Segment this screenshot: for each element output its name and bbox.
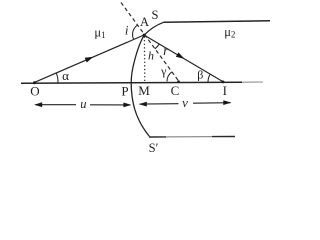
svg-text:α: α xyxy=(62,68,69,83)
angle arc gamma at C xyxy=(167,72,172,82)
svg-text:β: β xyxy=(197,67,203,81)
u distance double arrow xyxy=(36,104,77,106)
svg-text:A: A xyxy=(140,15,149,29)
angle arc r at A xyxy=(155,44,160,49)
svg-text:S′: S′ xyxy=(149,141,159,155)
refracting spherical surface S S' (arc through P) xyxy=(131,22,163,136)
junction dot at I xyxy=(222,81,225,84)
svg-text:M: M xyxy=(138,83,150,98)
svg-text:u: u xyxy=(80,97,86,111)
lower boundary line middle (faded) xyxy=(166,136,212,138)
svg-text:i: i xyxy=(125,23,129,38)
axis faint right extension xyxy=(242,81,263,83)
lower boundary line end (dark) xyxy=(212,136,235,138)
normal through A and C (dashed) xyxy=(121,3,179,82)
principal axis OPMCI xyxy=(21,82,242,83)
svg-text:C: C xyxy=(171,83,180,98)
lower boundary line of medium 2 from S' (dark start) xyxy=(149,136,166,138)
svg-text:r: r xyxy=(163,43,169,58)
svg-text:O: O xyxy=(30,84,39,99)
svg-text:I: I xyxy=(223,83,227,98)
svg-text:γ: γ xyxy=(160,64,167,78)
svg-text:S: S xyxy=(152,8,159,22)
junction dot at O xyxy=(33,81,36,84)
svg-text:h: h xyxy=(148,49,154,63)
svg-text:μ2: μ2 xyxy=(224,25,235,40)
junction dot at C xyxy=(177,80,180,83)
perpendicular height AM (dotted) xyxy=(143,37,145,83)
junction node at A xyxy=(143,34,146,37)
angle arc beta at I xyxy=(208,74,210,82)
svg-text:P: P xyxy=(121,84,128,99)
arrowhead on refracted ray xyxy=(176,52,186,61)
angle arc alpha at O xyxy=(56,73,58,83)
svg-text:v: v xyxy=(182,95,188,110)
incident ray O to A xyxy=(34,35,145,83)
arrowhead on incident ray xyxy=(85,54,95,62)
svg-text:μ1: μ1 xyxy=(94,26,105,41)
refracted ray A to I xyxy=(144,35,224,82)
upper boundary line of medium 2 from S xyxy=(164,21,271,23)
v distance double arrow xyxy=(140,103,179,105)
angle arc i at A xyxy=(133,25,138,39)
